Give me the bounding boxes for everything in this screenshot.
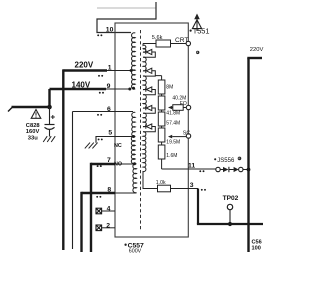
JS556 connector circle A <box>216 167 220 171</box>
HV diode D1 <box>143 31 197 57</box>
pin7 wire <box>91 163 115 165</box>
svg-text:5.6k: 5.6k <box>152 35 163 41</box>
svg-text:41.8M: 41.8M <box>166 111 180 117</box>
HV anode symbol T551 <box>196 19 198 31</box>
resistor 1.0k <box>158 185 171 192</box>
HV diode D5 <box>143 124 155 132</box>
resistor chain R3 <box>158 112 165 126</box>
svg-text:1: 1 <box>108 64 112 71</box>
resistor 1.0k lead from winding <box>143 172 158 189</box>
FO wiper arrow <box>168 106 172 110</box>
stub end tick <box>8 108 12 112</box>
transformer T551 outline box <box>115 23 188 237</box>
svg-text:2: 2 <box>106 222 110 229</box>
JS556 connector circle B <box>239 167 243 171</box>
140V down to C828 node <box>48 89 50 108</box>
svg-text:JS556: JS556 <box>217 158 235 164</box>
resistor 5.6k <box>156 40 171 47</box>
svg-text:C828: C828 <box>26 123 41 129</box>
pin2 NC connector <box>96 225 102 231</box>
HV diode D3 <box>143 87 155 95</box>
primary winding P2 (pins 6-5) <box>132 112 136 136</box>
HV diode D4 <box>143 105 155 113</box>
svg-text:FO: FO <box>180 101 187 107</box>
JS556 arrow into circle B <box>229 169 234 171</box>
double-dot marks <box>96 34 206 197</box>
core dashed line <box>140 30 142 231</box>
primary winding P4 (pins 7-8) <box>133 164 137 193</box>
svg-text:10: 10 <box>106 27 114 34</box>
resistor chain R2 <box>158 96 165 110</box>
resistor chain R4 <box>158 128 165 142</box>
node dot at C828 <box>47 105 52 110</box>
pin6 wire <box>73 111 134 113</box>
primary winding P1 (pins 10-1-9) <box>132 33 136 89</box>
resistor chain R5 <box>158 145 165 159</box>
wire to rail at y224 <box>197 223 263 225</box>
faint top wire <box>97 7 156 9</box>
svg-text:8M: 8M <box>166 84 173 90</box>
pin8 rail down <box>80 192 82 252</box>
svg-text:140V: 140V <box>72 80 91 89</box>
footnote mark below CRT <box>196 51 199 54</box>
svg-text:CRT: CRT <box>175 37 188 44</box>
svg-text:NO: NO <box>114 162 122 168</box>
220 rail top stub <box>247 57 262 59</box>
junction dot on 220 rail <box>247 168 251 172</box>
svg-text:11: 11 <box>188 162 195 169</box>
svg-text:100: 100 <box>252 246 261 252</box>
svg-text:9: 9 <box>107 83 111 90</box>
140V feed wire pin9 <box>50 88 107 90</box>
FO resistor 40.2M <box>173 105 183 111</box>
footnote mark at JS556 <box>238 157 242 161</box>
primary winding P3 (pins 5-7) <box>131 136 135 164</box>
220 rail vertical <box>247 58 249 252</box>
140V stub wire left <box>12 106 50 108</box>
svg-text:33u: 33u <box>28 136 38 142</box>
resistor chain R1 8M <box>158 80 165 94</box>
svg-text:3: 3 <box>190 182 194 189</box>
SC terminal circle <box>186 134 190 138</box>
secondary top corner to CRT wire <box>143 44 146 53</box>
sec section 2 <box>143 57 146 71</box>
pin4 NC connector <box>96 208 102 214</box>
FO terminal circle <box>186 105 190 109</box>
winding junction dots <box>130 69 133 72</box>
svg-text:600V: 600V <box>129 249 142 255</box>
pin 3 wire down <box>197 189 199 225</box>
svg-text:NC: NC <box>114 143 122 149</box>
capacitor C828 <box>49 107 51 124</box>
wire pin10 top loop <box>97 2 156 33</box>
svg-text:TP02: TP02 <box>223 195 239 202</box>
sec section 6 (long, to 1.0k) <box>143 132 146 172</box>
svg-text:220V: 220V <box>75 61 94 70</box>
svg-text:1.6M: 1.6M <box>166 153 177 159</box>
SC wiper arrow <box>168 135 172 139</box>
svg-text:6: 6 <box>107 106 111 113</box>
svg-text:5: 5 <box>108 130 112 137</box>
CRT output wire <box>143 43 186 45</box>
warning triangle <box>31 110 41 119</box>
HV diode D2 <box>143 68 155 76</box>
ground chassis at C828 <box>43 136 55 142</box>
TP02 test point circle <box>227 204 232 209</box>
svg-text:7: 7 <box>107 157 111 164</box>
pin 11 wire to JS556 <box>162 168 216 170</box>
svg-text:8: 8 <box>107 186 111 193</box>
220V rail down <box>62 69 64 250</box>
JS556 arrow into bar <box>220 169 223 171</box>
TP02 junction dot <box>228 222 232 226</box>
CRT terminal circle <box>186 41 190 45</box>
svg-text:4: 4 <box>107 205 111 212</box>
svg-text:SC: SC <box>183 130 191 136</box>
svg-text:57.4M: 57.4M <box>166 120 180 126</box>
pin7 rail down <box>90 163 92 252</box>
svg-text:1.0k: 1.0k <box>156 180 166 186</box>
svg-text:160V: 160V <box>26 129 40 135</box>
220V feed wire pin1 <box>63 69 107 71</box>
pin5 wire <box>96 137 134 143</box>
ground chassis at pin5 <box>85 143 98 149</box>
sec section 5 <box>143 113 146 127</box>
svg-text:19.5M: 19.5M <box>166 139 180 145</box>
sec section 3 <box>143 76 146 90</box>
sec section 4 <box>143 95 146 109</box>
pin8 wire <box>82 192 116 194</box>
pin6 rail down <box>72 112 74 250</box>
pin number labels <box>106 27 196 230</box>
TP02 stem <box>229 210 231 224</box>
svg-text:T551: T551 <box>193 27 210 36</box>
focus divider chain spine <box>155 76 161 169</box>
svg-text:220V: 220V <box>250 47 264 53</box>
